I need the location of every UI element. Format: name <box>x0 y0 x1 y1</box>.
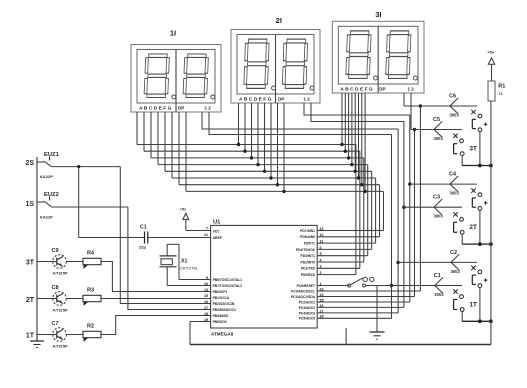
svg-text:1S: 1S <box>25 201 34 208</box>
svg-text:PC1/ADC1/SDA: PC1/ADC1/SDA <box>291 295 316 299</box>
svg-text:+5v: +5v <box>487 50 495 55</box>
svg-text:PD0/RXD: PD0/RXD <box>301 273 316 277</box>
svg-text:26: 26 <box>320 304 324 308</box>
svg-text:2T: 2T <box>26 297 35 304</box>
svg-text:R4: R4 <box>87 251 95 257</box>
svg-text:1T: 1T <box>26 333 35 340</box>
svg-text:EUZ2: EUZ2 <box>44 192 59 198</box>
svg-text:PB1/OC1A: PB1/OC1A <box>213 296 230 300</box>
svg-text:PC2/ADC2: PC2/ADC2 <box>299 300 315 304</box>
svg-text:PB0/ICP1: PB0/ICP1 <box>213 290 228 294</box>
svg-text:PD6/AIN0: PD6/AIN0 <box>300 235 315 239</box>
svg-text:13: 13 <box>320 227 324 231</box>
svg-text:2: 2 <box>320 271 322 275</box>
svg-text:PD4/T0/XCK: PD4/T0/XCK <box>296 248 316 252</box>
svg-text:R2: R2 <box>87 324 94 330</box>
svg-text:ABCDEFG: ABCDEFG <box>139 106 173 112</box>
svg-text:11: 11 <box>320 240 324 244</box>
svg-text:4: 4 <box>320 258 322 262</box>
svg-text:1 2: 1 2 <box>408 87 415 92</box>
svg-text:2I: 2I <box>276 16 282 25</box>
svg-text:PB2/SS/OC1B: PB2/SS/OC1B <box>213 302 235 306</box>
svg-text:VCC: VCC <box>213 229 221 233</box>
svg-text:7: 7 <box>206 227 208 231</box>
svg-text:1 2: 1 2 <box>205 106 212 111</box>
svg-text:AREF: AREF <box>213 236 222 240</box>
svg-text:3003: 3003 <box>450 113 460 118</box>
svg-text:3003: 3003 <box>434 292 444 297</box>
svg-text:1 2: 1 2 <box>304 97 311 102</box>
svg-text:PC5/ADC5: PC5/ADC5 <box>299 317 315 321</box>
svg-text:23: 23 <box>320 287 324 291</box>
svg-text:15: 15 <box>204 294 208 298</box>
svg-text:CRYSTAL: CRYSTAL <box>180 266 199 271</box>
svg-text:2T: 2T <box>469 224 477 231</box>
svg-text:C6: C6 <box>449 94 456 100</box>
svg-text:3I: 3I <box>375 10 381 19</box>
svg-text:PB4/MISO: PB4/MISO <box>213 314 229 318</box>
svg-text:PB6/TOSC1/XTAL1: PB6/TOSC1/XTAL1 <box>213 278 243 282</box>
svg-text:C2: C2 <box>450 250 457 256</box>
svg-text:U1: U1 <box>213 220 221 226</box>
svg-text:C4: C4 <box>449 172 457 178</box>
svg-text:KA22P: KA22P <box>40 174 53 179</box>
svg-text:PB5/SCK: PB5/SCK <box>213 320 228 324</box>
svg-text:3003: 3003 <box>434 214 444 219</box>
svg-text:X1: X1 <box>181 259 187 265</box>
svg-text:5: 5 <box>320 252 322 256</box>
svg-text:PC0/ADC0/SCL: PC0/ADC0/SCL <box>291 289 315 293</box>
svg-text:DP: DP <box>178 106 184 111</box>
svg-text:24: 24 <box>320 293 324 297</box>
svg-text:PD7/AIN1: PD7/AIN1 <box>300 229 315 233</box>
svg-text:12: 12 <box>320 233 324 237</box>
svg-text:3: 3 <box>320 265 322 269</box>
svg-text:C7: C7 <box>52 321 59 327</box>
svg-text:EUZ1: EUZ1 <box>44 152 60 158</box>
svg-text:PC3/ADC3: PC3/ADC3 <box>299 306 315 310</box>
svg-text:3003: 3003 <box>434 136 444 141</box>
svg-text:DP: DP <box>379 87 385 92</box>
svg-text:ABCDEFG: ABCDEFG <box>340 87 374 93</box>
svg-text:PD1/TXD: PD1/TXD <box>301 267 316 271</box>
svg-text:KT315P: KT315P <box>53 344 68 349</box>
svg-text:PC6/RESET: PC6/RESET <box>297 284 315 288</box>
svg-text:27: 27 <box>320 309 324 313</box>
svg-text:1: 1 <box>320 282 322 286</box>
svg-text:R3: R3 <box>87 288 94 294</box>
svg-text:ATMEGA8: ATMEGA8 <box>211 332 234 337</box>
svg-text:KA22P: KA22P <box>40 215 53 220</box>
svg-text:PC4/ADC4: PC4/ADC4 <box>299 311 315 315</box>
svg-text:1T: 1T <box>469 301 477 308</box>
svg-text:C3: C3 <box>433 195 440 201</box>
svg-text:PD3/INT1: PD3/INT1 <box>301 254 316 258</box>
svg-text:R1: R1 <box>498 84 505 90</box>
svg-text:3T: 3T <box>469 146 477 153</box>
svg-text:PB7/TOSC2/XTAL2: PB7/TOSC2/XTAL2 <box>213 284 243 288</box>
svg-text:3003: 3003 <box>450 191 460 196</box>
svg-text:3003: 3003 <box>451 269 461 274</box>
svg-text:2S: 2S <box>25 160 34 167</box>
svg-text:ABCDEFG: ABCDEFG <box>239 97 273 103</box>
svg-text:DP: DP <box>278 97 284 102</box>
svg-text:+5v: +5v <box>180 208 187 212</box>
svg-text:PD2/INT0: PD2/INT0 <box>301 260 316 264</box>
svg-text:KT315P: KT315P <box>53 271 68 276</box>
svg-text:6: 6 <box>320 246 322 250</box>
svg-text:21: 21 <box>204 233 208 237</box>
svg-text:3T: 3T <box>26 260 35 267</box>
svg-text:C5: C5 <box>433 117 440 123</box>
svg-text:C9: C9 <box>52 248 59 254</box>
svg-text:22p: 22p <box>139 245 146 250</box>
svg-text:28: 28 <box>320 315 324 319</box>
svg-text:C1: C1 <box>140 225 147 231</box>
svg-text:C8: C8 <box>52 285 59 291</box>
svg-text:PD5/T1: PD5/T1 <box>304 242 315 246</box>
svg-text:C1: C1 <box>434 273 441 279</box>
svg-text:PB3/MOSI/OC2: PB3/MOSI/OC2 <box>213 308 237 312</box>
svg-text:1I: 1I <box>170 29 176 38</box>
svg-text:25: 25 <box>320 298 324 302</box>
svg-text:19: 19 <box>204 318 208 322</box>
svg-text:KT315P: KT315P <box>53 308 68 313</box>
